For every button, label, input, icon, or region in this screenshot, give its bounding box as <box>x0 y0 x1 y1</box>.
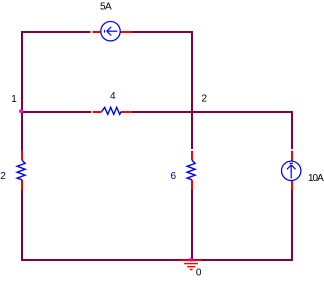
wire right vertical lower segment <box>291 191 293 262</box>
svg-text:6: 6 <box>171 171 177 182</box>
wire top horizontal left segment <box>21 31 91 33</box>
current source I2 10A (right vertical branch) <box>282 151 301 191</box>
svg-text:4: 4 <box>110 91 116 102</box>
wire left vertical upper segment <box>21 31 23 150</box>
svg-text:5A: 5A <box>100 2 112 13</box>
current source I1 5A (top branch) <box>92 22 131 41</box>
svg-text:10A: 10A <box>308 173 324 184</box>
node 1 junction dot <box>19 109 23 113</box>
wire top horizontal right segment <box>131 31 193 33</box>
resistor R4 value 4 (middle horizontal branch) <box>92 107 130 114</box>
wire right vertical upper segment <box>291 111 293 149</box>
svg-text:2: 2 <box>0 171 6 182</box>
ground symbol (node 0) <box>180 260 201 269</box>
wire bottom horizontal <box>21 259 293 261</box>
resistor R2 value 2 (left vertical branch) <box>17 151 25 190</box>
svg-text:2: 2 <box>202 94 208 105</box>
svg-text:0: 0 <box>196 268 202 279</box>
wire left vertical lower segment <box>21 190 23 261</box>
svg-text:1: 1 <box>11 94 17 105</box>
wire middle horizontal left segment (node 1 to R4) <box>21 111 91 113</box>
wire middle horizontal right segment (R4 to right branch) <box>131 111 293 113</box>
ground junction dot <box>189 258 193 262</box>
wire middle vertical lower segment <box>191 190 193 261</box>
wire middle vertical upper segment <box>191 31 193 149</box>
resistor R6 value 6 (middle vertical branch) <box>187 151 195 190</box>
